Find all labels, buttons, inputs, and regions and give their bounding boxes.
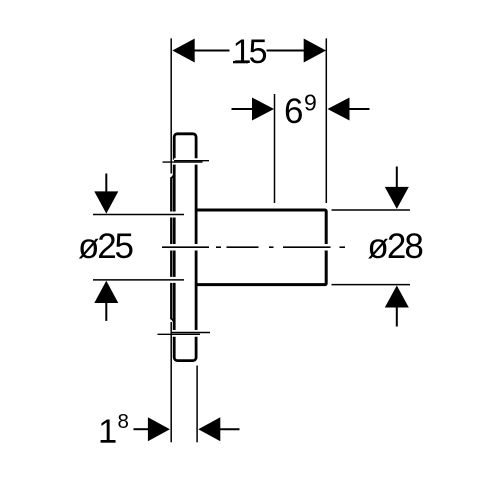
dim 18 arrow right (198, 417, 220, 441)
svg-text:9: 9 (304, 90, 317, 116)
dia28 tail top (396, 167, 398, 189)
svg-text:1: 1 (98, 414, 117, 451)
break line bottom (158, 333, 211, 335)
extension line right x326 (325, 38, 327, 203)
dia25 tail top (105, 174, 107, 193)
tube outline (197, 210, 327, 285)
extension line x274 dim69 (274, 94, 276, 203)
extension line left x171 bottom (170, 322, 172, 442)
dim 69 tail left (232, 108, 254, 110)
dim 15 arrow right (304, 39, 326, 63)
break line top (163, 161, 210, 162)
dim 69 arrow left (252, 98, 274, 121)
flange seal bump face (170, 177, 172, 319)
dim 15 line (193, 50, 305, 52)
dim 69 tail right (349, 108, 370, 110)
svg-text:6: 6 (284, 92, 303, 131)
dia28 extension lines (332, 210, 411, 285)
svg-text:ø25: ø25 (78, 227, 134, 266)
svg-text:ø28: ø28 (367, 227, 424, 266)
dia25 arrow bottom (94, 281, 118, 303)
dim 18 tail left (134, 428, 150, 430)
dim 15 arrow left (172, 39, 194, 63)
halo masks (93, 161, 345, 335)
dia25 hole lines (93, 215, 184, 280)
dia28 tail bottom (396, 307, 398, 327)
svg-text:8: 8 (118, 410, 129, 433)
dim 18 arrow left (148, 417, 170, 441)
extension line x197 bottom (196, 366, 198, 443)
dia28 arrow top (385, 187, 409, 209)
dia28 arrow bottom (385, 286, 409, 308)
dia25 tail bottom (105, 302, 107, 321)
dim 69 arrow right (328, 98, 350, 121)
label 15 foot bar (233, 61, 248, 63)
flange F1 outline (174, 134, 196, 361)
label 1 foot bar (101, 440, 116, 442)
svg-text:15: 15 (233, 33, 268, 71)
center line (162, 246, 345, 248)
dia25 arrow top (94, 191, 118, 213)
dim 18 tail right (219, 428, 239, 430)
extension line left x171 top (170, 38, 172, 173)
bump step top (171, 175, 174, 179)
bump step bottom (171, 318, 174, 322)
